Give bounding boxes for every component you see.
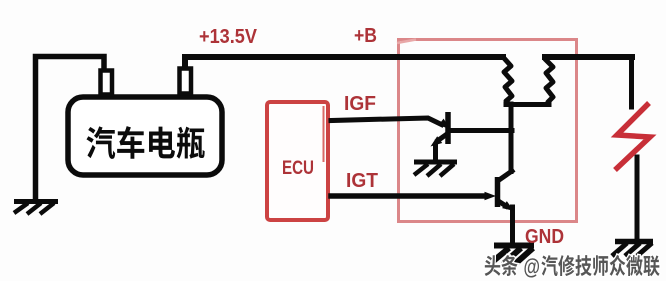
svg-text:IGF: IGF [344,93,376,115]
svg-text:ECU: ECU [282,158,314,179]
svg-text:+B: +B [354,25,377,47]
svg-text:+13.5V: +13.5V [199,26,258,48]
svg-text:GND: GND [525,226,564,248]
svg-text:IGT: IGT [346,170,378,192]
